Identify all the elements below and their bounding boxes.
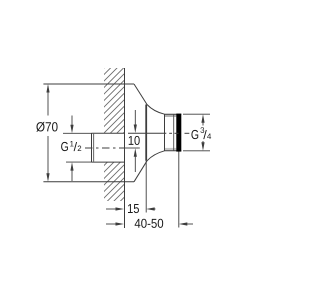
top edge incl. dim extension to left	[43, 83, 134, 85]
inlet centerline	[85, 147, 140, 149]
bottom edge incl. dim extension to left	[43, 181, 134, 183]
outlet cylinder shading	[165, 115, 177, 117]
G1/2 pipe stub	[92, 133, 125, 162]
extension line rosette rim (15 right)	[145, 161, 147, 213]
escutcheon rosette outline	[43, 84, 147, 182]
body cone curves	[147, 105, 165, 115]
dimension 15	[106, 207, 156, 210]
outlet centerline / pipe-top extension	[128, 132, 189, 134]
label G3/4	[191, 127, 211, 139]
dimension G1/2 arrows	[63, 116, 92, 182]
label 40-50	[135, 219, 164, 228]
wall face line + lower extension line	[124, 68, 126, 228]
rosette rim	[145, 105, 147, 161]
label Ø70	[36, 122, 57, 132]
label G1/2	[61, 141, 81, 151]
dimension 10	[134, 110, 137, 172]
outlet cylinder	[165, 114, 182, 151]
bottom chamfer	[134, 161, 147, 182]
top chamfer	[134, 84, 147, 105]
extension line fitting end (40-50 right)	[178, 152, 180, 228]
G3/4 thread band	[176, 114, 181, 152]
dimension G3/4	[183, 114, 210, 151]
dimension 40-50	[106, 222, 193, 225]
wall hatch	[78, 34, 138, 263]
dimension Ø70	[46, 84, 49, 182]
label 10	[129, 136, 140, 145]
label 15	[128, 204, 139, 213]
